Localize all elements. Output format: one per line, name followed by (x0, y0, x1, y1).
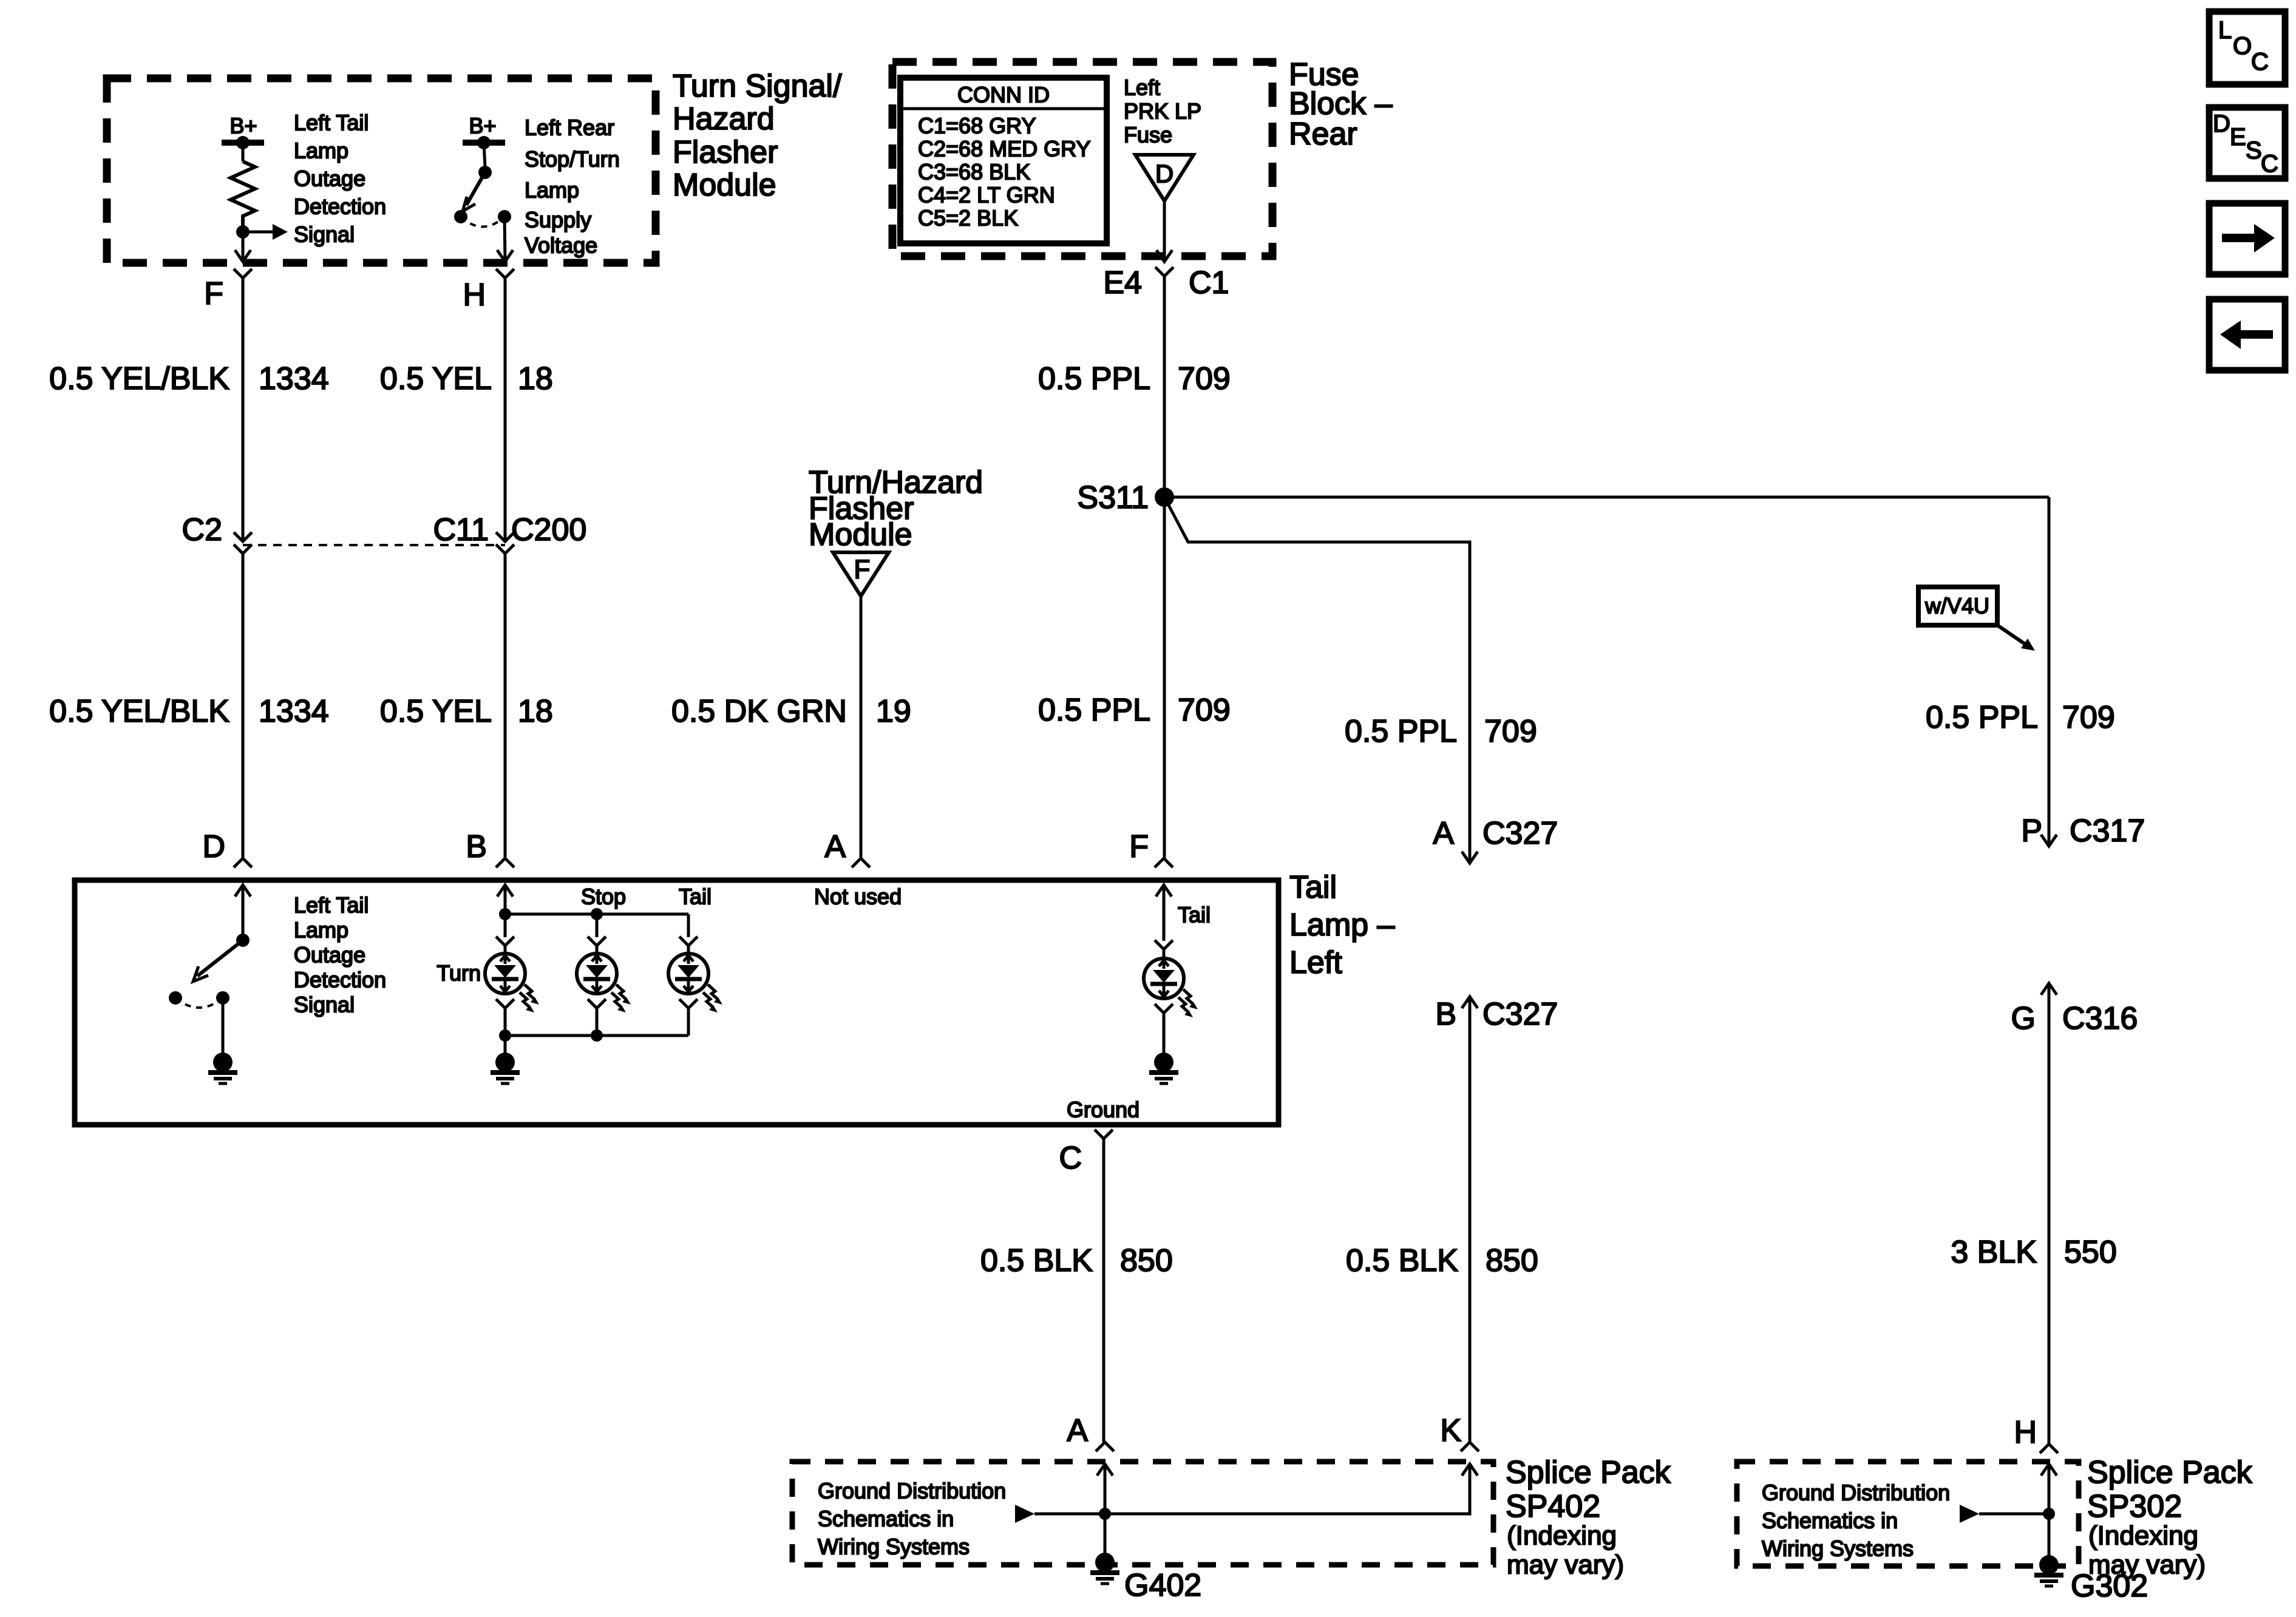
label Tail 2 (1178, 903, 1211, 927)
label Left Rear Stop/Turn Lamp Supply Voltage (525, 115, 620, 258)
wire resistor to pin F with arrow (235, 232, 251, 262)
wire C200 to pin B 0.5 YEL 18 (504, 554, 507, 858)
svg-text:Lamp: Lamp (294, 138, 348, 163)
switch S2 Left Tail Lamp Outage Detection (169, 934, 250, 1005)
wire S311 diagonal branch to C327 (1164, 497, 1478, 863)
fuse D Left PRK LP triangle (1135, 155, 1194, 201)
wire switch contact to ground (222, 998, 225, 1053)
svg-text:C: C (1059, 1141, 1082, 1176)
wire lamps to ground (504, 1036, 507, 1053)
svg-text:may vary): may vary) (1507, 1550, 1624, 1580)
svg-text:B+: B+ (469, 114, 496, 138)
svg-text:0.5 YEL: 0.5 YEL (380, 694, 492, 729)
svg-text:Splice Pack: Splice Pack (2087, 1455, 2253, 1490)
svg-text:0.5 PPL: 0.5 PPL (1926, 700, 2038, 735)
svg-text:709: 709 (1178, 693, 1231, 728)
label Ground (1067, 1097, 1140, 1122)
svg-text:C316: C316 (2062, 1001, 2138, 1036)
wire E4 down 0.5 PPL 709 (1163, 276, 1166, 487)
pin A connector (824, 829, 870, 867)
module U1 Turn Signal/Hazard Flasher Module dashed box (107, 78, 656, 263)
svg-text:Wiring Systems: Wiring Systems (818, 1534, 970, 1559)
svg-text:C11: C11 (433, 512, 489, 547)
svg-text:C327: C327 (1483, 816, 1558, 851)
lamp tail bulb (668, 914, 722, 1036)
switch S1 Left Rear Stop/Turn blade (454, 143, 511, 223)
svg-text:w/V4U: w/V4U (1924, 594, 1989, 619)
node junction left module (236, 225, 250, 239)
svg-text:Wiring Systems: Wiring Systems (1762, 1536, 1914, 1561)
wire B C327 down to K 0.5 BLK 850 (1462, 997, 1478, 1442)
svg-text:D: D (1155, 160, 1173, 188)
svg-text:709: 709 (1484, 714, 1537, 749)
svg-text:A: A (1433, 816, 1454, 851)
svg-text:C5=2 BLK: C5=2 BLK (918, 206, 1018, 231)
svg-text:Rear: Rear (1289, 117, 1357, 152)
connector G C316 (2011, 1001, 2138, 1036)
svg-text:D: D (2213, 110, 2230, 137)
wire G C316 down to H 3 BLK 550 (2041, 983, 2057, 1444)
svg-text:1334: 1334 (259, 361, 329, 396)
svg-text:CONN ID: CONN ID (957, 83, 1050, 107)
svg-text:P: P (2021, 813, 2042, 849)
label 0.5 YEL/BLK 1334 row2 (49, 694, 329, 729)
wire F down 0.5 YEL/BLK 1334 (242, 278, 245, 541)
connector C11 C200 pair (433, 512, 586, 567)
svg-text:0.5 PPL: 0.5 PPL (1038, 693, 1150, 728)
svg-text:SP302: SP302 (2087, 1489, 2182, 1524)
svg-text:0.5 YEL/BLK: 0.5 YEL/BLK (49, 694, 229, 729)
wire right branch down to P C317 (2041, 497, 2057, 846)
svg-text:C4=2 LT GRN: C4=2 LT GRN (918, 183, 1055, 208)
label Ground Distribution Schematics in Wiring Systems 2 (1762, 1480, 1950, 1561)
pin K splice connector (1440, 1413, 1479, 1451)
svg-text:Flasher: Flasher (673, 135, 778, 170)
label 0.5 BLK 850 right (1346, 1243, 1538, 1278)
svg-text:Lamp: Lamp (525, 178, 579, 203)
svg-text:Left: Left (1124, 75, 1160, 100)
splice pack SP302 dashed box (1737, 1462, 2079, 1566)
label 0.5 PPL 709 far right (1926, 700, 2115, 735)
svg-text:Ground Distribution: Ground Distribution (1762, 1480, 1950, 1505)
svg-text:O: O (2233, 33, 2252, 59)
connector C2 pair (182, 512, 252, 567)
svg-text:F: F (1129, 829, 1149, 864)
label Splice Pack SP402 (1506, 1455, 1671, 1580)
svg-text:B: B (466, 829, 487, 864)
svg-text:Fuse: Fuse (1124, 123, 1172, 147)
label 0.5 PPL 709 branch (1345, 714, 1537, 749)
wire C2 to pin D 0.5 YEL/BLK 1334 (242, 554, 245, 858)
nav box arrow left (2209, 299, 2285, 370)
label 0.5 YEL 18 row1 (380, 361, 553, 396)
svg-text:B: B (1435, 997, 1456, 1032)
wire H down 0.5 YEL 18 (504, 278, 507, 541)
option box w/V4U (1918, 587, 2035, 651)
svg-text:Module: Module (673, 168, 776, 203)
svg-text:Splice Pack: Splice Pack (1506, 1455, 1671, 1490)
label Left Tail Lamp Outage Detection Signal (294, 110, 386, 247)
lamp turn bulb (485, 914, 539, 1036)
connector P C317 (2021, 813, 2145, 849)
svg-text:Lamp: Lamp (294, 918, 348, 943)
ground tail right (1149, 1053, 1178, 1083)
node lamp bottom branch (499, 1029, 688, 1042)
node S311 splice (1077, 480, 1174, 515)
wire H entry arrow to ground G302 (2041, 1464, 2057, 1557)
svg-text:709: 709 (2062, 700, 2115, 735)
pin D connector (202, 829, 252, 867)
svg-text:Ground: Ground (1067, 1097, 1140, 1122)
svg-text:Not used: Not used (814, 884, 902, 909)
svg-text:(Indexing: (Indexing (1507, 1521, 1617, 1551)
pin B connector (466, 829, 514, 867)
svg-text:G: G (2011, 1001, 2036, 1036)
label Stop (581, 884, 626, 909)
svg-text:L: L (2218, 17, 2232, 44)
svg-text:0.5 BLK: 0.5 BLK (980, 1243, 1093, 1278)
svg-text:H: H (463, 277, 486, 313)
wire pin D entry arrow (235, 885, 251, 940)
svg-text:S311: S311 (1077, 480, 1149, 515)
svg-text:G402: G402 (1124, 1568, 1201, 1603)
svg-text:C327: C327 (1483, 997, 1558, 1032)
svg-text:Signal: Signal (294, 992, 355, 1017)
label Fuse Block - Rear (1289, 57, 1393, 152)
ground lamps (491, 1053, 520, 1083)
svg-text:E: E (2230, 124, 2246, 151)
svg-text:Tail: Tail (679, 884, 712, 909)
wire flasher to pin A 0.5 DK GRN 19 (860, 596, 863, 858)
label 0.5 PPL 709 row2 (1038, 693, 1231, 728)
svg-text:Outage: Outage (294, 166, 365, 191)
fuse symbol F Turn/Hazard Flasher Module triangle (833, 552, 889, 596)
svg-text:C2: C2 (182, 512, 222, 547)
svg-text:SP402: SP402 (1506, 1489, 1600, 1524)
svg-text:Detection: Detection (294, 968, 386, 992)
svg-text:Ground Distribution: Ground Distribution (818, 1479, 1006, 1503)
svg-text:may vary): may vary) (2088, 1550, 2206, 1580)
wire B+ to resistor (242, 143, 245, 161)
svg-text:C: C (2261, 151, 2278, 177)
wire S311 down to pin F 0.5 PPL 709 (1163, 497, 1166, 858)
label Not used (814, 884, 902, 909)
svg-text:0.5 PPL: 0.5 PPL (1345, 714, 1457, 749)
svg-text:850: 850 (1486, 1243, 1538, 1278)
svg-text:Detection: Detection (294, 194, 386, 219)
svg-text:H: H (2014, 1415, 2037, 1450)
arrow signal out (243, 224, 288, 240)
svg-text:550: 550 (2064, 1235, 2117, 1270)
svg-text:Module: Module (809, 517, 912, 552)
svg-text:0.5 YEL: 0.5 YEL (380, 361, 492, 396)
svg-text:(Indexing: (Indexing (2088, 1521, 2198, 1551)
label Turn Signal/Hazard Flasher Module (673, 69, 842, 203)
pin F tail connector (1129, 829, 1173, 867)
svg-text:Stop: Stop (581, 884, 626, 909)
svg-text:18: 18 (518, 361, 553, 396)
svg-text:F: F (854, 555, 871, 585)
splice pack SP402 dashed box (792, 1462, 1493, 1565)
label 0.5 PPL 709 row1 (1038, 361, 1231, 396)
label Turn (436, 961, 481, 986)
label 0.5 BLK 850 left (980, 1243, 1173, 1278)
svg-text:709: 709 (1178, 361, 1231, 396)
svg-text:19: 19 (876, 694, 911, 729)
power B+ left (222, 114, 264, 150)
arrow into SP402 (1015, 1464, 1478, 1523)
svg-text:Hazard: Hazard (673, 101, 775, 137)
tail lamp box Tail Lamp - Left (75, 880, 1279, 1125)
svg-text:PRK LP: PRK LP (1124, 99, 1201, 124)
label 0.5 YEL/BLK 1334 row1 (49, 361, 329, 396)
resistor R1 Left Tail Lamp Outage Detection (231, 161, 255, 226)
svg-text:Supply: Supply (525, 208, 591, 232)
svg-text:Stop/Turn: Stop/Turn (525, 147, 620, 172)
svg-text:3 BLK: 3 BLK (1951, 1235, 2037, 1270)
svg-text:C2=68 MED GRY: C2=68 MED GRY (918, 137, 1090, 161)
svg-text:18: 18 (518, 694, 553, 729)
ground switch (208, 1053, 237, 1083)
svg-text:C200: C200 (511, 512, 586, 547)
svg-text:Turn Signal/: Turn Signal/ (673, 69, 842, 104)
switch throw dashed arc (461, 217, 504, 227)
arrow into SP302 (1960, 1505, 2049, 1523)
label 0.5 YEL 18 row2 (380, 694, 553, 729)
module U2 Turn/Hazard Flasher Module label (809, 465, 983, 552)
svg-text:Voltage: Voltage (525, 233, 597, 258)
connector B C327 (1435, 997, 1558, 1032)
svg-text:Left: Left (1289, 945, 1342, 980)
svg-text:C3=68 BLK: C3=68 BLK (918, 160, 1030, 185)
svg-text:Left Rear: Left Rear (525, 115, 614, 140)
label 3 BLK 550 (1951, 1235, 2116, 1270)
pin C connector ground out (1059, 1130, 1113, 1176)
ground G302 (2034, 1555, 2148, 1604)
svg-text:E4: E4 (1103, 265, 1142, 300)
svg-text:0.5 YEL/BLK: 0.5 YEL/BLK (49, 361, 229, 396)
nav box DESC (2209, 107, 2285, 178)
svg-text:Outage: Outage (294, 943, 365, 968)
lamp tail right bulb (1144, 940, 1198, 1053)
lamp stop bulb (577, 914, 631, 1036)
pin F connector (204, 269, 252, 311)
power B+ right (463, 114, 505, 150)
wire C down 0.5 BLK 850 (1102, 1139, 1106, 1442)
label Tail 1 (679, 884, 712, 909)
svg-text:1334: 1334 (259, 694, 329, 729)
svg-text:F: F (204, 276, 223, 311)
connector A C327 (1433, 816, 1558, 851)
svg-text:Turn: Turn (436, 961, 481, 986)
pin A splice connector (1067, 1413, 1114, 1451)
wire dashed connector link C2-C200 (243, 544, 505, 546)
svg-text:K: K (1440, 1413, 1461, 1448)
pin H connector (463, 269, 514, 313)
wire fuse to pin E4 with arrow (1156, 201, 1172, 262)
ground G402 (1090, 1553, 1201, 1603)
label Ground Distribution Schematics in Wiring Systems (818, 1479, 1006, 1559)
label Tail Lamp - Left (1289, 870, 1395, 980)
wire A entry arrow to ground G402 (1097, 1464, 1113, 1554)
svg-text:Schematics in: Schematics in (1762, 1508, 1898, 1533)
label Left Tail Lamp Outage Detection Signal 2 (294, 893, 386, 1017)
svg-text:850: 850 (1120, 1243, 1173, 1278)
svg-text:Lamp –: Lamp – (1289, 907, 1395, 943)
pin H splice connector (2014, 1415, 2058, 1453)
svg-text:0.5 PPL: 0.5 PPL (1038, 361, 1150, 396)
svg-text:C: C (2251, 49, 2269, 75)
svg-text:S: S (2246, 137, 2262, 164)
svg-text:0.5 DK GRN: 0.5 DK GRN (671, 694, 847, 729)
svg-text:C1=68 GRY: C1=68 GRY (918, 114, 1036, 138)
svg-text:A: A (824, 829, 846, 864)
label 0.5 DK GRN 19 (671, 694, 911, 729)
svg-text:B+: B+ (229, 114, 257, 138)
svg-text:A: A (1067, 1413, 1088, 1448)
wire pin B entry arrow to junction (497, 885, 513, 914)
svg-text:Left Tail: Left Tail (294, 110, 369, 135)
node lamp top branch (499, 908, 688, 920)
nav box arrow right (2209, 203, 2285, 274)
svg-text:C317: C317 (2070, 813, 2145, 849)
wire switch to pin H with arrow (497, 217, 513, 262)
fuse block dashed box (892, 62, 1272, 256)
svg-text:Signal: Signal (294, 222, 355, 247)
label Splice Pack SP302 (2087, 1455, 2253, 1580)
svg-text:0.5 BLK: 0.5 BLK (1346, 1243, 1458, 1278)
wire pin F entry arrow (1156, 885, 1172, 941)
pin E4 connector C1 (1103, 265, 1229, 300)
label Left PRK LP Fuse (1124, 75, 1201, 147)
svg-text:Tail: Tail (1289, 870, 1337, 905)
svg-text:Left Tail: Left Tail (294, 893, 369, 918)
svg-text:D: D (202, 829, 225, 864)
wire S311 horizontal to right branch (1164, 496, 2049, 499)
svg-text:Schematics in: Schematics in (818, 1507, 954, 1531)
svg-text:C1: C1 (1189, 265, 1229, 300)
CONN ID table (900, 78, 1107, 243)
switch throw dashed arc 2 (175, 998, 223, 1008)
nav box LOC (2209, 12, 2285, 84)
svg-text:Tail: Tail (1178, 903, 1211, 927)
